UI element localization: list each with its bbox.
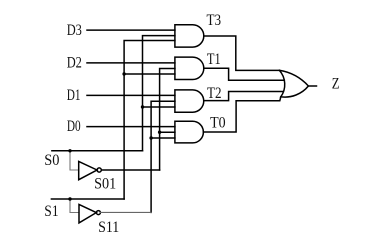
svg-text:S0: S0 <box>44 152 59 169</box>
svg-text:Z: Z <box>332 76 340 93</box>
svg-text:D2: D2 <box>67 55 82 72</box>
svg-text:D0: D0 <box>67 118 81 135</box>
svg-text:T2: T2 <box>207 85 222 102</box>
svg-text:S1: S1 <box>44 203 58 220</box>
svg-text:S11: S11 <box>98 219 119 236</box>
svg-text:S01: S01 <box>94 176 116 193</box>
svg-text:D1: D1 <box>67 87 81 104</box>
svg-text:T1: T1 <box>207 51 221 68</box>
svg-text:D3: D3 <box>67 22 82 39</box>
svg-text:T3: T3 <box>207 12 222 29</box>
svg-text:T0: T0 <box>210 114 226 131</box>
